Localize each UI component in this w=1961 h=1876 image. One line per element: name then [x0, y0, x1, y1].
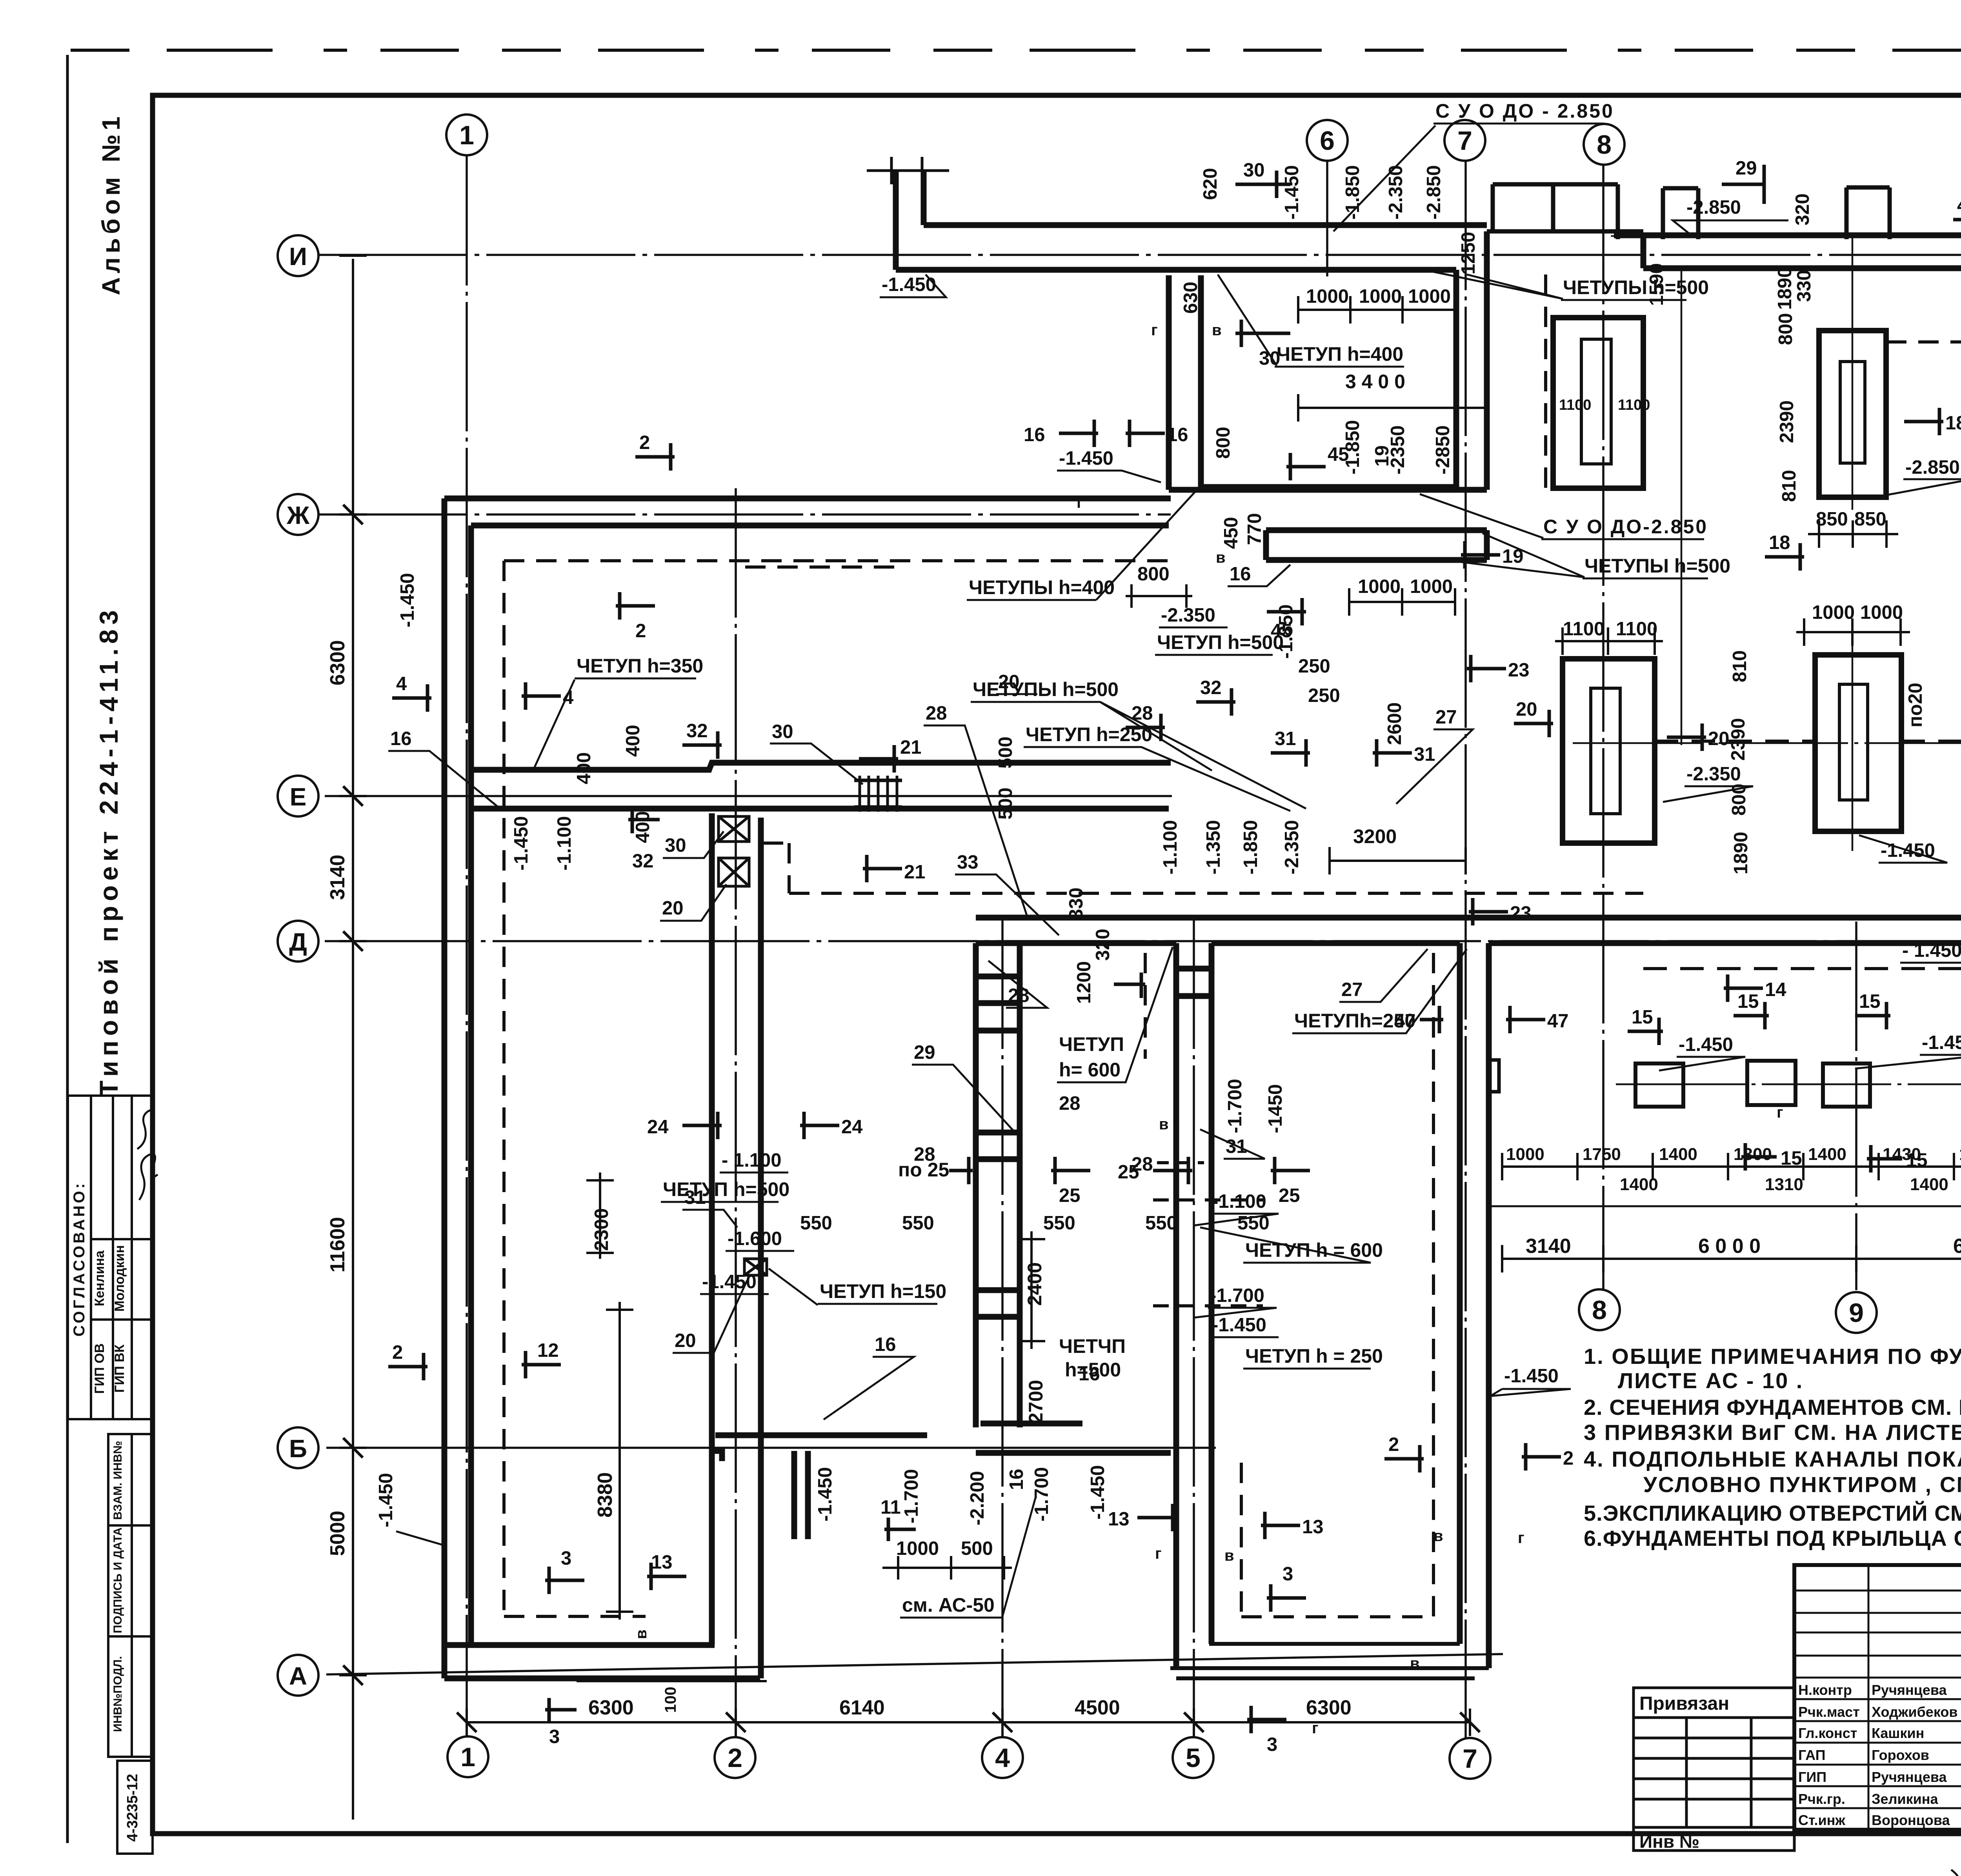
rotated 1250 — [1458, 232, 1479, 274]
svg-text:28: 28 — [914, 1144, 935, 1165]
svg-text:1000: 1000 — [1306, 286, 1349, 307]
svg-text:1750: 1750 — [1959, 1145, 1961, 1164]
svg-text:г: г — [1777, 1104, 1783, 1121]
wall middle block west rungs — [1176, 969, 1212, 996]
rotated 500 pair b — [995, 787, 1016, 820]
mark 30 lower label — [663, 831, 724, 858]
svg-text:Ходжибеков: Ходжибеков — [1872, 1704, 1957, 1720]
rotated -1.450 left E — [511, 816, 532, 871]
svg-text:24: 24 — [647, 1116, 669, 1138]
label ustup h250 mid2 — [1292, 949, 1467, 1033]
svg-text:СОГЛАСОВАНО:: СОГЛАСОВАНО: — [71, 1181, 88, 1337]
mark 18 left — [1765, 532, 1804, 571]
svg-text:-1.450: -1.450 — [702, 1271, 757, 1292]
pad P4 centerline — [1852, 643, 1854, 851]
svg-text:21: 21 — [900, 737, 922, 758]
mark 25 a — [1051, 1157, 1090, 1206]
dim 400c rot E — [632, 811, 653, 843]
mark 16 lower mid — [1228, 564, 1290, 586]
dim 620 stub — [867, 157, 1221, 200]
mark 20 label mid — [996, 671, 1037, 694]
svg-text:1400: 1400 — [1910, 1175, 1948, 1194]
label 27 mid — [1339, 949, 1428, 1002]
svg-text:-2.850: -2.850 — [1686, 197, 1741, 218]
svg-text:400: 400 — [573, 752, 595, 784]
axis circle 7 bottom — [1450, 1738, 1490, 1779]
document number box — [117, 1761, 153, 1854]
svg-text:Рчк.гр.: Рчк.гр. — [1798, 1791, 1845, 1807]
label 29 ladder — [912, 1042, 1016, 1133]
wall middle block west — [1176, 943, 1212, 1668]
label chetupy h500 lower right — [1451, 533, 1730, 578]
dim 630 — [1180, 282, 1201, 314]
foundation pad P2 top 850 — [1819, 331, 1886, 497]
label 16b — [1079, 1363, 1100, 1385]
svg-text:11600: 11600 — [326, 1217, 349, 1272]
svg-text:1000: 1000 — [1812, 602, 1855, 623]
foundation pad P6 row2 axis8 — [1563, 659, 1655, 843]
svg-text:1100: 1100 — [1563, 618, 1604, 640]
sheet edge left line — [66, 55, 69, 1843]
svg-text:2: 2 — [1563, 1448, 1574, 1469]
svg-text:в: в — [1433, 1527, 1443, 1545]
wall tower south — [1169, 487, 1487, 490]
axis circle 8 top — [1584, 124, 1624, 165]
thin dim vertical right of axis8 — [1681, 271, 1683, 745]
svg-text:-1.450: -1.450 — [1212, 1314, 1266, 1336]
signature squiggles sidebar — [137, 1110, 158, 1200]
rotated 800 left tower — [1213, 427, 1234, 459]
axis 5 vertical line — [1193, 920, 1195, 1737]
svg-text:3140: 3140 — [1526, 1235, 1571, 1258]
label -2.350 mid — [1159, 605, 1228, 627]
svg-text:16: 16 — [1167, 424, 1188, 445]
wall V row thin line — [1489, 1205, 1961, 1207]
rotated -2350 tower — [1387, 425, 1408, 474]
mark 24 left — [647, 1112, 722, 1139]
axis 7 vertical line — [1464, 161, 1467, 1738]
svg-text:630: 630 — [1180, 282, 1201, 314]
svg-text:47: 47 — [1394, 1011, 1416, 1032]
svg-text:-1.450: -1.450 — [397, 573, 418, 627]
mark 31 left — [1271, 728, 1310, 767]
label -1.450 under 16 — [1057, 448, 1161, 482]
svg-text:И: И — [289, 242, 307, 271]
svg-text:1: 1 — [459, 120, 474, 150]
svg-text:330: 330 — [1794, 270, 1815, 302]
svg-text:Инв №: Инв № — [1639, 1831, 1699, 1852]
svg-text:1: 1 — [460, 1742, 475, 1772]
svg-text:ГИП ОВ: ГИП ОВ — [92, 1343, 107, 1394]
mark 32 lower — [628, 806, 660, 872]
dashed right wing inner horizontals — [1643, 967, 1961, 970]
svg-text:см. АС-50: см. АС-50 — [902, 1594, 995, 1616]
label -1.700 low — [1194, 1285, 1277, 1318]
svg-text:Рчк.маст: Рчк.маст — [1798, 1704, 1860, 1720]
svg-text:770: 770 — [1244, 513, 1265, 545]
svg-text:г: г — [1077, 494, 1083, 511]
mark 32 left — [682, 720, 722, 759]
mark 15 c — [1855, 991, 1890, 1029]
svg-text:19: 19 — [1372, 445, 1393, 467]
svg-text:-1.450: -1.450 — [1087, 1465, 1108, 1520]
wall I band upper right structure — [1487, 184, 1643, 239]
svg-text:А: А — [289, 1662, 307, 1690]
axis circle 1 bottom — [448, 1736, 488, 1777]
svg-text:Б: Б — [289, 1434, 307, 1463]
svg-text:4: 4 — [563, 687, 573, 708]
mark 4 left — [392, 673, 431, 712]
mark 30 label — [770, 721, 863, 784]
axis E horizontal line — [325, 795, 1172, 797]
svg-text:1890: 1890 — [1774, 267, 1795, 310]
svg-text:3: 3 — [561, 1548, 571, 1569]
axis 8 vertical line — [1602, 165, 1604, 1289]
svg-text:1000: 1000 — [1358, 576, 1401, 597]
svg-text:850: 850 — [1854, 509, 1886, 530]
svg-text:ЧЕТУП h=150: ЧЕТУП h=150 — [820, 1280, 946, 1302]
svg-text:Ст.инж: Ст.инж — [1798, 1812, 1845, 1828]
svg-text:-2.850: -2.850 — [1423, 165, 1444, 220]
svg-text:250: 250 — [1308, 685, 1340, 706]
svg-text:30: 30 — [1243, 160, 1265, 181]
svg-text:1100: 1100 — [1559, 397, 1591, 413]
rotated level -2850 — [1423, 165, 1444, 220]
mark 15 b — [1734, 991, 1769, 1029]
right wing pads marks 15 — [1628, 1007, 1663, 1045]
svg-text:Воронцова: Воронцова — [1872, 1812, 1950, 1828]
label -1.450 bl2 — [700, 1271, 769, 1294]
svg-text:550: 550 — [902, 1212, 934, 1234]
svg-text:1400: 1400 — [1808, 1145, 1846, 1164]
rotated col2 1890 — [1730, 832, 1752, 874]
rotated col 320 — [1792, 193, 1813, 225]
label ustupy h400 left — [967, 486, 1200, 600]
label -1.450 pad P4 — [1859, 835, 1947, 863]
label -1.450 top left — [880, 274, 946, 297]
left dim chain line — [339, 256, 367, 1820]
svg-text:Кашкин: Кашкин — [1872, 1725, 1924, 1741]
svg-text:1200: 1200 — [1073, 961, 1095, 1004]
label -1.450 bl — [375, 1473, 443, 1545]
svg-text:-1.700: -1.700 — [901, 1469, 922, 1523]
axis circle 2 bottom — [715, 1737, 755, 1778]
svg-text:800: 800 — [1213, 427, 1234, 459]
label SVO do -2850 top — [1333, 100, 1614, 231]
bottom dim chain — [467, 1709, 1470, 1736]
mark 28 T top — [1126, 703, 1165, 741]
svg-text:6.ФУНДАМЕНТЫ ПОД КРЫЛЬЦА: 6.ФУНДАМЕНТЫ ПОД КРЫЛЬЦА СМ. НА ЛИСТЕ АС… — [1584, 1526, 1961, 1551]
label 20 below — [660, 884, 726, 921]
svg-text:250: 250 — [1298, 656, 1330, 677]
svg-text:Д: Д — [289, 928, 307, 956]
svg-text:16: 16 — [1006, 1469, 1027, 1490]
svg-text:8: 8 — [1597, 130, 1612, 160]
svg-text:1300: 1300 — [1734, 1145, 1772, 1164]
svg-text:18: 18 — [1945, 413, 1961, 434]
svg-text:ЧЕТУП h=500: ЧЕТУП h=500 — [1157, 631, 1284, 653]
svg-text:в: в — [1224, 1547, 1234, 1564]
svg-text:1000: 1000 — [1408, 286, 1451, 307]
svg-text:20: 20 — [662, 898, 684, 919]
axis circle 1 top — [446, 115, 487, 155]
axis I horizontal line — [318, 254, 1961, 256]
svg-text:11: 11 — [880, 1497, 901, 1518]
mark 20 pad p1 — [1667, 723, 1730, 751]
svg-text:1310: 1310 — [1765, 1175, 1803, 1194]
label ustup h600 low — [1200, 1227, 1383, 1263]
wall middle block south — [1170, 1644, 1489, 1678]
svg-text:24: 24 — [841, 1116, 863, 1138]
svg-text:Кенлина: Кенлина — [92, 1250, 107, 1306]
channel rungs E slot — [860, 776, 897, 812]
svg-text:1000: 1000 — [896, 1538, 939, 1559]
svg-text:Привязан: Привязан — [1639, 1693, 1729, 1714]
dim 850 850 — [1808, 509, 1898, 548]
svg-text:23: 23 — [1510, 903, 1532, 924]
svg-text:400: 400 — [632, 811, 653, 843]
svg-text:г: г — [1151, 322, 1158, 339]
svg-text:31: 31 — [1275, 728, 1296, 749]
svg-text:-2.350: -2.350 — [1281, 820, 1302, 874]
wall ladder axis4 — [976, 943, 1020, 1427]
svg-text:-1.100: -1.100 — [1160, 820, 1181, 874]
label -1.450 low — [1210, 1314, 1279, 1337]
mark 25 b — [1118, 1157, 1192, 1184]
dim 400b rot E — [622, 725, 644, 757]
axis circle 9 mid — [1836, 1292, 1877, 1333]
svg-text:УСЛОВНО ПУНКТИРОМ , СМ. АС-: УСЛОВНО ПУНКТИРОМ , СМ. АС- 11,12,13. — [1643, 1472, 1961, 1497]
svg-text:47: 47 — [1547, 1011, 1569, 1032]
mark 15 e — [1741, 1143, 1802, 1171]
svg-text:500: 500 — [995, 787, 1016, 820]
svg-text:6300: 6300 — [1306, 1696, 1352, 1719]
axis 1 vertical line — [466, 156, 468, 1736]
svg-text:-1.450: -1.450 — [1679, 1034, 1733, 1055]
dim 1100 1100 pad p6 — [1555, 618, 1663, 655]
wall E row — [471, 763, 1171, 809]
label ustup h250 mid left — [1024, 723, 1290, 811]
svg-text:15: 15 — [1737, 991, 1759, 1012]
rotated 8380 — [594, 1302, 633, 1620]
mark 16 pair left — [1024, 420, 1098, 447]
svg-text:27: 27 — [1435, 707, 1457, 728]
rotated 770 — [1244, 513, 1265, 545]
dashed I band lower — [745, 565, 896, 569]
axis 2 vertical line — [735, 488, 737, 1737]
svg-text:-1.450: -1.450 — [511, 816, 532, 871]
axis 9 vertical line — [1855, 922, 1857, 1290]
rotated col2 810 — [1729, 650, 1750, 682]
mark 15 f — [1867, 1145, 1928, 1172]
dim 1000 1000 row2 left — [1796, 602, 1910, 646]
mark 32 T — [1196, 677, 1235, 716]
axis circle B left — [278, 1427, 318, 1468]
svg-text:400: 400 — [622, 725, 644, 757]
svg-text:ЧЕТУП: ЧЕТУП — [1059, 1033, 1124, 1055]
rw chain labels — [1506, 1145, 1961, 1164]
svg-text:850: 850 — [1816, 509, 1848, 530]
wall ladder rungs — [976, 976, 1020, 1317]
svg-text:2700: 2700 — [1025, 1380, 1047, 1423]
svg-text:810: 810 — [1729, 650, 1750, 682]
right wing dim chain — [1502, 1153, 1961, 1180]
svg-text:в: в — [1410, 1655, 1420, 1672]
dim 1000x3 top — [1298, 286, 1455, 324]
dashed middle block bottom inner — [1241, 953, 1433, 1617]
label ustup h350 — [533, 655, 703, 770]
svg-text:Ручянцева: Ручянцева — [1872, 1769, 1947, 1785]
axis circle 7 top — [1444, 120, 1485, 161]
rotated 2300 — [586, 1172, 614, 1259]
axis circle D left — [278, 921, 318, 962]
label 250 lower — [1308, 685, 1340, 706]
svg-text:1400: 1400 — [1620, 1175, 1658, 1194]
svg-text:4500: 4500 — [1075, 1696, 1120, 1719]
title roles column — [1798, 1682, 1957, 1828]
label ustup h250 low — [1243, 1345, 1383, 1369]
svg-text:-1.450: -1.450 — [815, 1467, 836, 1522]
svg-text:4: 4 — [995, 1743, 1010, 1773]
svg-text:Ручянцева: Ручянцева — [1872, 1682, 1947, 1698]
rw chain labels2 — [1620, 1175, 1948, 1194]
mark 3 bottom mid — [1247, 1706, 1286, 1755]
svg-text:28: 28 — [1131, 1154, 1153, 1175]
svg-text:h= 600: h= 600 — [1059, 1059, 1121, 1081]
rotated 450 — [1221, 517, 1242, 549]
svg-text:330: 330 — [1066, 887, 1087, 920]
rotated 2600 — [1384, 702, 1405, 745]
label -2.850 pad2 — [1887, 457, 1961, 495]
svg-text:-1.450: -1.450 — [1281, 165, 1302, 220]
svg-text:500: 500 — [995, 736, 1016, 769]
svg-text:6300: 6300 — [588, 1696, 634, 1719]
small pad S2 — [1747, 1061, 1795, 1105]
dim 400 rot E — [573, 752, 595, 784]
svg-text:620: 620 — [1200, 168, 1221, 200]
label 20 bl — [673, 1280, 747, 1353]
rotated levels column mid — [1160, 820, 1181, 874]
axis circle 8 mid — [1579, 1289, 1620, 1330]
wall Zh band right segment — [1266, 530, 1487, 560]
dim 2700 rot — [1025, 1380, 1047, 1423]
foundation pad P1 top axis8 — [1553, 318, 1643, 488]
mark 30 upper — [1235, 160, 1290, 198]
wall left block west — [444, 498, 471, 1678]
svg-text:41: 41 — [1957, 195, 1961, 216]
svg-text:13: 13 — [1302, 1516, 1324, 1538]
svg-text:-1.700: -1.700 — [1224, 1079, 1246, 1133]
svg-text:20: 20 — [1708, 728, 1730, 749]
mark 23 upper — [1467, 655, 1530, 682]
soglasovano table — [68, 1096, 153, 1419]
svg-text:16: 16 — [1024, 424, 1045, 445]
svg-text:2: 2 — [728, 1743, 742, 1773]
dashed pads top right row1 — [1886, 340, 1961, 344]
axis D horizontal line — [325, 940, 1961, 942]
mark 16 pair right — [1126, 420, 1188, 447]
label -2.850 right — [1673, 197, 1788, 234]
label -1450 rw2 — [1855, 1032, 1961, 1069]
svg-text:1430: 1430 — [1883, 1145, 1921, 1164]
svg-text:Н.контр: Н.контр — [1798, 1682, 1852, 1698]
label ustup h150 — [769, 1269, 946, 1305]
mark 4 mid — [1114, 973, 1145, 998]
small pad S1 — [1635, 1063, 1683, 1107]
rotated 500 pair — [995, 736, 1016, 769]
dim 800 small — [1126, 564, 1192, 608]
svg-text:2390: 2390 — [1776, 400, 1797, 443]
dim 3200 — [1330, 825, 1466, 874]
svg-text:4: 4 — [396, 673, 407, 694]
svg-text:25: 25 — [1279, 1185, 1300, 1206]
svg-text:Е: Е — [290, 783, 307, 811]
wall B row mid segment — [976, 1450, 1171, 1456]
wall middle block east notch — [1489, 1060, 1499, 1092]
rotated col2 2390 — [1728, 718, 1749, 761]
svg-text:3140: 3140 — [326, 854, 349, 900]
rotated levels in tower — [1342, 420, 1363, 474]
svg-text:ЛИСТЕ АС - 10 .: ЛИСТЕ АС - 10 . — [1618, 1368, 1803, 1393]
svg-text:2: 2 — [1388, 1434, 1399, 1455]
mark 24 right — [800, 1112, 863, 1139]
svg-text:в: в — [1159, 1116, 1169, 1133]
foundation pad P4 row2 — [1815, 655, 1901, 831]
svg-text:320: 320 — [1792, 193, 1813, 225]
rotated levels above axis6 — [1281, 165, 1302, 220]
label 28 top — [924, 703, 1028, 918]
crossed box K3 — [744, 1259, 767, 1275]
svg-text:ЧЕТУПЫ h=500: ЧЕТУПЫ h=500 — [1584, 555, 1730, 577]
svg-text:в: в — [633, 1629, 650, 1639]
svg-text:3: 3 — [1267, 1734, 1277, 1755]
svg-text:6300: 6300 — [326, 640, 349, 685]
svg-text:13: 13 — [651, 1552, 673, 1573]
dashed vertical west of pad8 — [1544, 274, 1547, 488]
svg-text:3200: 3200 — [1353, 825, 1397, 847]
svg-text:23: 23 — [1508, 660, 1530, 681]
mark 29 top right — [1722, 158, 1765, 204]
rotated 1590 top — [1646, 263, 1961, 310]
svg-text:33: 33 — [957, 852, 979, 873]
mark 20 upper — [1514, 699, 1553, 737]
mark 28 ll — [914, 1144, 935, 1165]
svg-text:6 0 0 0: 6 0 0 0 — [1698, 1235, 1761, 1258]
svg-text:1590: 1590 — [1646, 263, 1667, 306]
axis circle E left — [278, 776, 318, 816]
axis Zh horizontal line — [318, 513, 1171, 516]
svg-text:16: 16 — [390, 728, 412, 749]
label -1.450 d row — [1900, 940, 1961, 963]
rotated -1350 — [1203, 820, 1224, 874]
rotated -1.450 axis1 — [397, 573, 418, 627]
rotated col2 800 — [1728, 783, 1750, 816]
svg-text:13: 13 — [1108, 1509, 1130, 1530]
svg-text:9: 9 — [1849, 1298, 1864, 1328]
svg-text:550: 550 — [1043, 1212, 1075, 1234]
title block grid — [1794, 1565, 1961, 1830]
rotated level -1850 — [1342, 165, 1363, 220]
label ustup h500 mid — [1155, 631, 1284, 655]
crossed box K1 — [719, 816, 749, 842]
dashed left block inner top — [504, 559, 1169, 562]
label sm AC50 — [900, 1498, 1035, 1618]
rotated -1.100 left E — [554, 816, 575, 871]
svg-text:2: 2 — [392, 1342, 403, 1363]
svg-text:30: 30 — [772, 721, 793, 742]
mark 12 bl — [522, 1340, 561, 1378]
svg-text:Зеликина: Зеликина — [1872, 1791, 1938, 1807]
